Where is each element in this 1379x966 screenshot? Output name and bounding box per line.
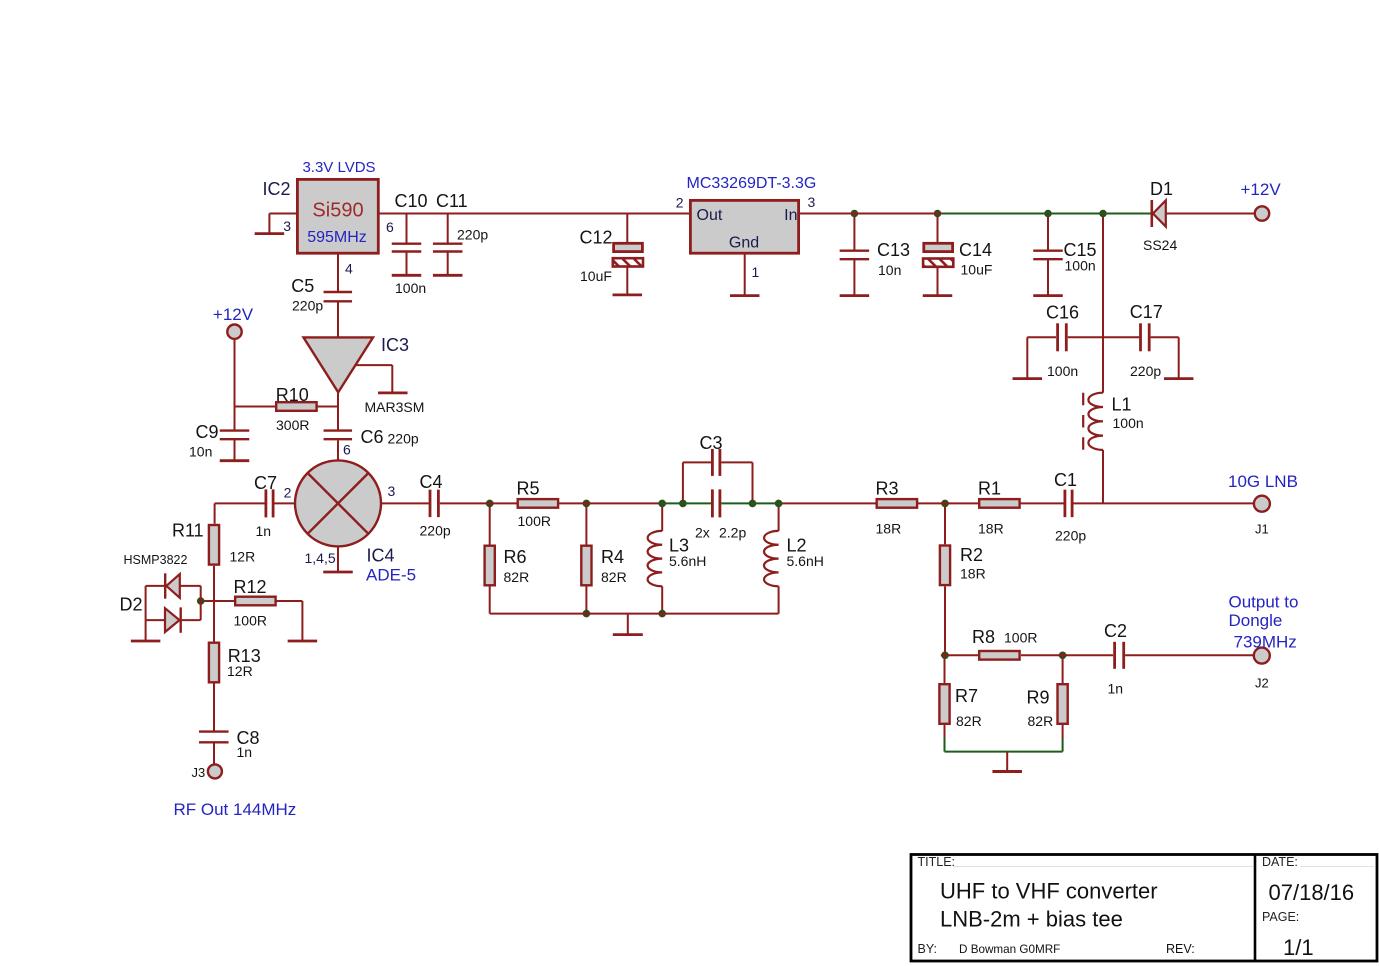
svg-text:220p: 220p — [388, 431, 419, 447]
svg-text:82R: 82R — [956, 713, 982, 729]
svg-text:Gnd: Gnd — [729, 235, 759, 252]
svg-text:RF Out 144MHz: RF Out 144MHz — [174, 800, 297, 819]
svg-text:C12: C12 — [580, 228, 613, 248]
svg-text:C7: C7 — [254, 473, 277, 493]
svg-text:5.6nH: 5.6nH — [669, 553, 706, 569]
svg-text:C13: C13 — [877, 240, 910, 260]
svg-text:3.3V LVDS: 3.3V LVDS — [302, 159, 375, 176]
svg-text:TITLE:: TITLE: — [918, 855, 956, 869]
svg-text:100n: 100n — [1047, 363, 1078, 379]
svg-text:R8: R8 — [972, 627, 995, 647]
svg-text:10n: 10n — [189, 444, 212, 460]
svg-text:100R: 100R — [1004, 630, 1037, 646]
svg-text:+12V: +12V — [213, 305, 254, 324]
svg-text:R10: R10 — [276, 385, 309, 405]
svg-text:C9: C9 — [196, 422, 219, 442]
svg-text:220p: 220p — [292, 297, 323, 313]
svg-text:MAR3SM: MAR3SM — [365, 399, 425, 415]
svg-text:C17: C17 — [1130, 302, 1163, 322]
svg-text:6: 6 — [386, 219, 394, 235]
svg-text:C11: C11 — [436, 191, 468, 211]
svg-text:C2: C2 — [1104, 621, 1127, 641]
svg-text:3: 3 — [808, 194, 816, 210]
svg-text:6: 6 — [343, 442, 351, 458]
svg-text:R2: R2 — [960, 545, 983, 565]
svg-text:D1: D1 — [1150, 179, 1173, 199]
svg-text:220p: 220p — [457, 227, 488, 243]
svg-text:C14: C14 — [959, 240, 992, 260]
svg-text:R11: R11 — [172, 521, 204, 541]
svg-text:18R: 18R — [978, 521, 1004, 537]
svg-text:HSMP3822: HSMP3822 — [124, 553, 188, 567]
svg-text:C3: C3 — [700, 433, 723, 453]
svg-text:12R: 12R — [227, 663, 253, 679]
svg-text:07/18/16: 07/18/16 — [1269, 880, 1355, 905]
svg-text:100n: 100n — [395, 280, 426, 296]
svg-text:2: 2 — [284, 485, 292, 501]
svg-text:10uF: 10uF — [961, 262, 993, 278]
svg-text:D Bowman G0MRF: D Bowman G0MRF — [959, 943, 1060, 956]
svg-text:IC3: IC3 — [381, 335, 409, 355]
svg-text:220p: 220p — [1130, 363, 1161, 379]
svg-text:1n: 1n — [256, 523, 272, 539]
svg-text:1n: 1n — [237, 744, 253, 760]
svg-text:100R: 100R — [518, 513, 551, 529]
svg-text:3: 3 — [283, 218, 291, 234]
svg-text:C5: C5 — [291, 276, 314, 296]
svg-text:10uF: 10uF — [580, 268, 612, 284]
svg-text:DATE:: DATE: — [1262, 855, 1298, 869]
svg-text:R3: R3 — [876, 479, 899, 499]
svg-text:100n: 100n — [1113, 415, 1144, 431]
svg-text:100n: 100n — [1065, 258, 1096, 274]
svg-text:3: 3 — [388, 483, 396, 499]
svg-text:10n: 10n — [878, 262, 901, 278]
svg-text:In: In — [784, 207, 797, 224]
svg-text:220p: 220p — [420, 523, 451, 539]
svg-text:220p: 220p — [1055, 528, 1086, 544]
svg-text:BY:: BY: — [918, 942, 937, 956]
svg-text:R9: R9 — [1027, 688, 1050, 708]
svg-text:IC4: IC4 — [367, 546, 395, 566]
svg-text:L1: L1 — [1112, 395, 1132, 415]
svg-text:MC33269DT-3.3G: MC33269DT-3.3G — [687, 175, 817, 192]
svg-text:1n: 1n — [1108, 681, 1124, 697]
svg-text:1,4,5: 1,4,5 — [305, 550, 336, 566]
svg-text:SS24: SS24 — [1143, 237, 1177, 253]
svg-text:2.2p: 2.2p — [719, 525, 746, 541]
svg-text:R7: R7 — [955, 686, 978, 706]
svg-text:82R: 82R — [1028, 713, 1054, 729]
svg-text:PAGE:: PAGE: — [1262, 910, 1299, 924]
svg-text:Si590: Si590 — [312, 200, 363, 222]
svg-text:R5: R5 — [517, 479, 540, 499]
svg-text:82R: 82R — [504, 569, 530, 585]
svg-text:595MHz: 595MHz — [307, 229, 367, 246]
svg-text:D2: D2 — [120, 595, 143, 615]
svg-text:2: 2 — [676, 195, 684, 211]
svg-text:C1: C1 — [1054, 470, 1077, 490]
svg-text:1/1: 1/1 — [1283, 935, 1314, 960]
svg-text:R6: R6 — [504, 547, 527, 567]
svg-text:R12: R12 — [234, 577, 267, 597]
svg-text:300R: 300R — [276, 417, 309, 433]
svg-text:12R: 12R — [230, 549, 256, 565]
svg-text:2x: 2x — [695, 525, 710, 541]
svg-text:C4: C4 — [420, 472, 443, 492]
svg-text:Output to: Output to — [1229, 593, 1299, 612]
svg-text:10G LNB: 10G LNB — [1228, 472, 1298, 491]
svg-text:C10: C10 — [395, 191, 428, 211]
svg-text:18R: 18R — [876, 521, 902, 537]
svg-text:+12V: +12V — [1241, 180, 1282, 199]
svg-text:LNB-2m + bias tee: LNB-2m + bias tee — [940, 907, 1123, 932]
svg-text:739MHz: 739MHz — [1234, 632, 1297, 651]
svg-text:82R: 82R — [601, 569, 627, 585]
svg-text:J2: J2 — [1255, 676, 1269, 691]
svg-text:1: 1 — [752, 264, 760, 280]
svg-text:C16: C16 — [1046, 303, 1079, 323]
svg-text:C6: C6 — [361, 427, 384, 447]
svg-text:IC2: IC2 — [263, 179, 291, 199]
svg-text:4: 4 — [345, 261, 353, 277]
svg-text:J3: J3 — [192, 765, 206, 780]
svg-text:R4: R4 — [601, 547, 624, 567]
svg-text:REV:: REV: — [1166, 942, 1195, 956]
svg-text:5.6nH: 5.6nH — [787, 553, 824, 569]
svg-text:UHF to VHF converter: UHF to VHF converter — [940, 879, 1158, 904]
svg-text:18R: 18R — [960, 566, 986, 582]
svg-text:R1: R1 — [978, 479, 1001, 499]
svg-text:ADE-5: ADE-5 — [366, 566, 416, 585]
svg-text:100R: 100R — [234, 613, 267, 629]
svg-text:Out: Out — [697, 207, 723, 224]
svg-text:J1: J1 — [1255, 522, 1269, 537]
svg-text:Dongle: Dongle — [1229, 611, 1283, 630]
